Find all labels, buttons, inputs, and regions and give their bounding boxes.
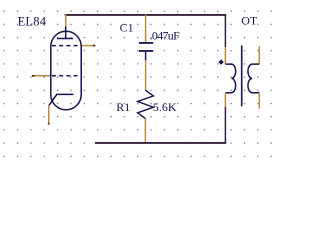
transformer OT secondary winding (248, 64, 259, 93)
capacitor C1 bottom plate (139, 50, 153, 52)
tube plate lead (65, 26, 67, 39)
resistor R1 zigzag (138, 90, 154, 118)
transformer primary top pin (224, 47, 226, 64)
resistor R1 bottom lead (144, 119, 146, 143)
svg-text:R1: R1 (116, 100, 130, 114)
svg-text:EL84: EL84 (18, 15, 47, 29)
capacitor C1 bottom lead (145, 52, 147, 61)
tube plate pin wire (65, 14, 67, 26)
wire C1 to R1 (145, 60, 147, 90)
transformer secondary bottom pin (258, 93, 260, 109)
wire bottom rail (95, 142, 226, 144)
svg-text:5.6K: 5.6K (153, 100, 177, 114)
wire top rail (65, 14, 227, 16)
transformer core (241, 46, 243, 107)
tube grid 2 pin (left stub) (32, 75, 50, 77)
svg-text:C1: C1 (120, 20, 134, 34)
capacitor C1 top plate (139, 42, 153, 44)
transformer polarity diamond (218, 59, 223, 64)
wire transformer primary top (224, 16, 226, 48)
tube grid 1 pin tip (93, 45, 95, 47)
tube grid 2 pin tip (32, 75, 35, 77)
capacitor C1 top pin wire (145, 14, 147, 42)
svg-text:.047uF: .047uF (150, 28, 181, 42)
transformer secondary top pin (258, 46, 260, 64)
tube grid 1 pin (right stub) (82, 45, 95, 47)
tube cathode (49, 94, 74, 105)
tube plate (anode) (57, 38, 73, 40)
transformer primary bottom pin (224, 93, 226, 107)
tube V1 EL84 envelope (51, 31, 81, 110)
tube grid 1 (dashed) (52, 45, 81, 47)
svg-text:OT: OT (241, 13, 258, 27)
wire transformer primary bottom (224, 107, 226, 143)
transformer OT primary winding (225, 64, 235, 93)
tube cathode pin tip (48, 123, 50, 125)
tube grid 2 (dashed) (52, 75, 81, 77)
tube cathode pin (48, 105, 50, 124)
